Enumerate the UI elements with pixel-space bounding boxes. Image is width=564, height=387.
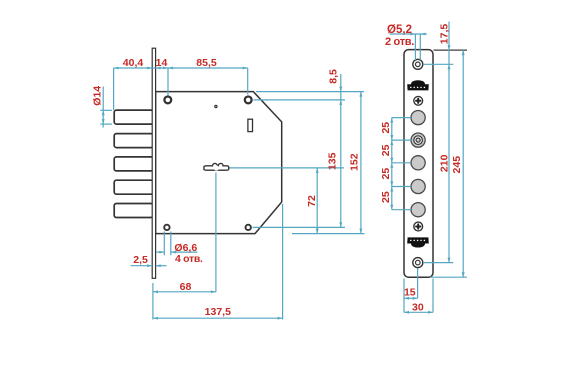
svg-text:Ø14: Ø14 bbox=[92, 86, 104, 106]
dim 137,5 line bbox=[153, 317, 283, 319]
svg-text:30: 30 bbox=[412, 301, 424, 313]
arrow 8,5 bbox=[339, 87, 342, 92]
svg-text:152: 152 bbox=[349, 153, 361, 171]
ext plate left down bbox=[403, 279, 405, 313]
ext circle2 bbox=[392, 139, 411, 141]
svg-text:2,5: 2,5 bbox=[133, 254, 148, 266]
svg-text:68: 68 bbox=[180, 281, 192, 293]
svg-text:25: 25 bbox=[380, 122, 392, 134]
top mount hole bbox=[413, 59, 423, 69]
bolt circle 4 bbox=[411, 179, 425, 193]
dim 30 line bbox=[404, 311, 433, 313]
svg-text:8,5: 8,5 bbox=[328, 69, 340, 84]
svg-text:Ø5,2: Ø5,2 bbox=[387, 24, 412, 36]
dim 135 line bbox=[340, 100, 342, 227]
phillips screw bottom bbox=[414, 222, 423, 231]
faceplate side strip bbox=[152, 48, 155, 278]
ext plate hole52 left bbox=[414, 34, 416, 60]
screw hole top-right bbox=[245, 97, 252, 104]
arrows 30 bbox=[404, 311, 409, 314]
svg-text:15: 15 bbox=[404, 287, 416, 299]
ref body top bbox=[256, 91, 364, 93]
svg-text:2 отв.: 2 отв. bbox=[385, 36, 414, 48]
phillips screw top bbox=[414, 96, 423, 105]
svg-text:135: 135 bbox=[327, 152, 339, 170]
svg-text:25: 25 bbox=[380, 168, 392, 180]
screw hole top-left bbox=[164, 97, 171, 104]
arrows 40,4 bbox=[114, 67, 119, 70]
ext circle5 bbox=[392, 209, 411, 211]
deadbolt 3 bbox=[114, 157, 153, 171]
ext top-left hole bbox=[167, 68, 169, 96]
dim 25 chain line bbox=[391, 118, 393, 210]
arrows 135 bbox=[339, 100, 342, 105]
dim Ø6,6 line bbox=[157, 251, 165, 253]
ext circle3 bbox=[392, 162, 411, 164]
dim 245 line bbox=[462, 50, 464, 277]
svg-text:4 отв.: 4 отв. bbox=[175, 253, 203, 265]
arrows 25 chain bbox=[390, 118, 393, 123]
ext hole bottom down bbox=[417, 268, 419, 298]
arrows 152 bbox=[359, 92, 362, 97]
keyhole bbox=[204, 163, 229, 170]
dim 15 line bbox=[404, 297, 418, 299]
arrows 15 bbox=[404, 297, 409, 300]
faceplate front outline bbox=[404, 50, 433, 278]
ext keyhole down bbox=[215, 173, 217, 292]
dim 68 line bbox=[153, 291, 216, 293]
deadbolt 4 bbox=[114, 180, 153, 194]
arrows 85,5 bbox=[168, 67, 173, 70]
ref plate hole top centre bbox=[423, 63, 453, 65]
ext body right down bbox=[282, 204, 284, 320]
dim 17,5 + 210 line bbox=[448, 22, 450, 263]
ref bottom hole centre bbox=[253, 226, 346, 228]
svg-text:14: 14 bbox=[156, 57, 168, 69]
lock body outline bbox=[156, 92, 282, 234]
arrows 72 bbox=[316, 168, 319, 173]
arrows 245 bbox=[462, 50, 465, 55]
deadbolt 1 bbox=[114, 110, 153, 124]
svg-text:25: 25 bbox=[380, 191, 392, 203]
ref plate hole bottom centre bbox=[423, 262, 453, 264]
svg-text:72: 72 bbox=[306, 195, 318, 207]
svg-text:85,5: 85,5 bbox=[196, 57, 217, 69]
bolt circle 3 bbox=[411, 156, 425, 170]
ext plate hole52 right bbox=[419, 34, 421, 60]
arrows Ø5,2 bbox=[410, 33, 415, 36]
ref plate top bbox=[434, 49, 468, 51]
bottom mount hole bbox=[413, 258, 423, 268]
dim Ø5,2 line bbox=[390, 33, 427, 35]
bolt circle 2 (ringed) bbox=[411, 133, 425, 147]
vertical slot bbox=[248, 119, 253, 131]
logo top bbox=[407, 80, 429, 90]
ref plate bottom bbox=[430, 276, 467, 278]
deadbolt 5 bbox=[114, 204, 153, 218]
arrows 17,5 bbox=[448, 45, 451, 50]
svg-text:17,5: 17,5 bbox=[438, 24, 450, 45]
arrows Ø6,6 bbox=[159, 251, 164, 254]
dim 72 line bbox=[316, 168, 318, 234]
ref top hole centre bbox=[254, 99, 346, 101]
bolt circle 5 bbox=[411, 203, 425, 217]
ext circle1 bbox=[392, 117, 411, 119]
ext plate right down bbox=[432, 279, 434, 313]
dim 152 line bbox=[360, 92, 362, 234]
arrows 137,5 bbox=[153, 317, 158, 320]
arrows Ø14 bbox=[102, 110, 105, 115]
dim 8,5 line bbox=[340, 74, 342, 100]
ref body bottom bbox=[292, 233, 365, 235]
svg-text:Ø6,6: Ø6,6 bbox=[174, 242, 197, 254]
bolt circle 1 bbox=[411, 111, 425, 125]
deadbolt 2 bbox=[114, 134, 153, 148]
dim 2,5 line bbox=[131, 265, 153, 267]
screw hole bottom-left bbox=[164, 225, 169, 230]
arrow 210 bottom bbox=[448, 258, 451, 263]
arrows 14 bbox=[156, 67, 161, 70]
svg-text:25: 25 bbox=[380, 144, 392, 156]
ext circle4 bbox=[392, 186, 411, 188]
ext hole66 right bbox=[170, 232, 172, 256]
svg-text:210: 210 bbox=[439, 154, 451, 172]
arrows 68 bbox=[153, 290, 158, 293]
screw hole bottom-right bbox=[246, 225, 251, 230]
ext top-right hole bbox=[247, 68, 249, 95]
logo bottom (flipped) bbox=[407, 237, 429, 247]
svg-text:40,4: 40,4 bbox=[123, 57, 144, 69]
small pin dot bbox=[215, 105, 217, 107]
arrows 2,5 bbox=[147, 264, 152, 267]
ext bolt1 top bbox=[100, 109, 112, 111]
dim 40,4/14/85,5 main line bbox=[114, 67, 248, 69]
ref keyhole centre bbox=[230, 167, 345, 169]
dim Ø14 line bbox=[102, 87, 104, 128]
svg-text:137,5: 137,5 bbox=[205, 306, 231, 318]
svg-text:245: 245 bbox=[451, 156, 463, 174]
ext faceplate down bbox=[152, 283, 154, 320]
ext bolt1 bottom bbox=[100, 123, 112, 125]
ext bolt tip bbox=[113, 68, 115, 110]
ext hole66 left bbox=[163, 232, 165, 256]
